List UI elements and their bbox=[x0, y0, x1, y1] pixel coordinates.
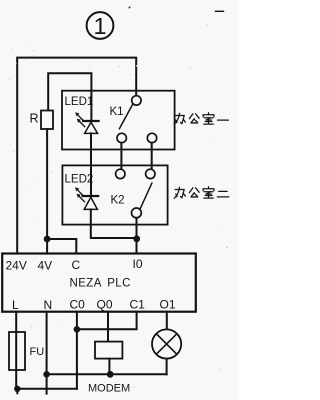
svg-text:I0: I0 bbox=[133, 257, 143, 271]
svg-text:K2: K2 bbox=[111, 195, 125, 207]
svg-text:1: 1 bbox=[93, 13, 106, 39]
svg-text:MODEM: MODEM bbox=[88, 383, 130, 395]
svg-text:R: R bbox=[30, 112, 39, 126]
svg-text:O1: O1 bbox=[160, 298, 176, 312]
svg-text:N: N bbox=[44, 298, 53, 312]
svg-text:K1: K1 bbox=[110, 106, 124, 118]
svg-text:4V: 4V bbox=[38, 259, 53, 273]
svg-text:24V: 24V bbox=[6, 259, 27, 273]
svg-text:LED2: LED2 bbox=[65, 173, 94, 185]
svg-text:C1: C1 bbox=[130, 298, 146, 312]
svg-text:Q0: Q0 bbox=[97, 298, 113, 312]
svg-text:NEZA PLC: NEZA PLC bbox=[70, 278, 131, 290]
svg-text:L: L bbox=[12, 298, 19, 312]
svg-text:C0: C0 bbox=[70, 298, 86, 312]
svg-text:LED1: LED1 bbox=[65, 96, 94, 108]
svg-text:C: C bbox=[72, 258, 81, 272]
svg-text:FU: FU bbox=[30, 346, 45, 358]
